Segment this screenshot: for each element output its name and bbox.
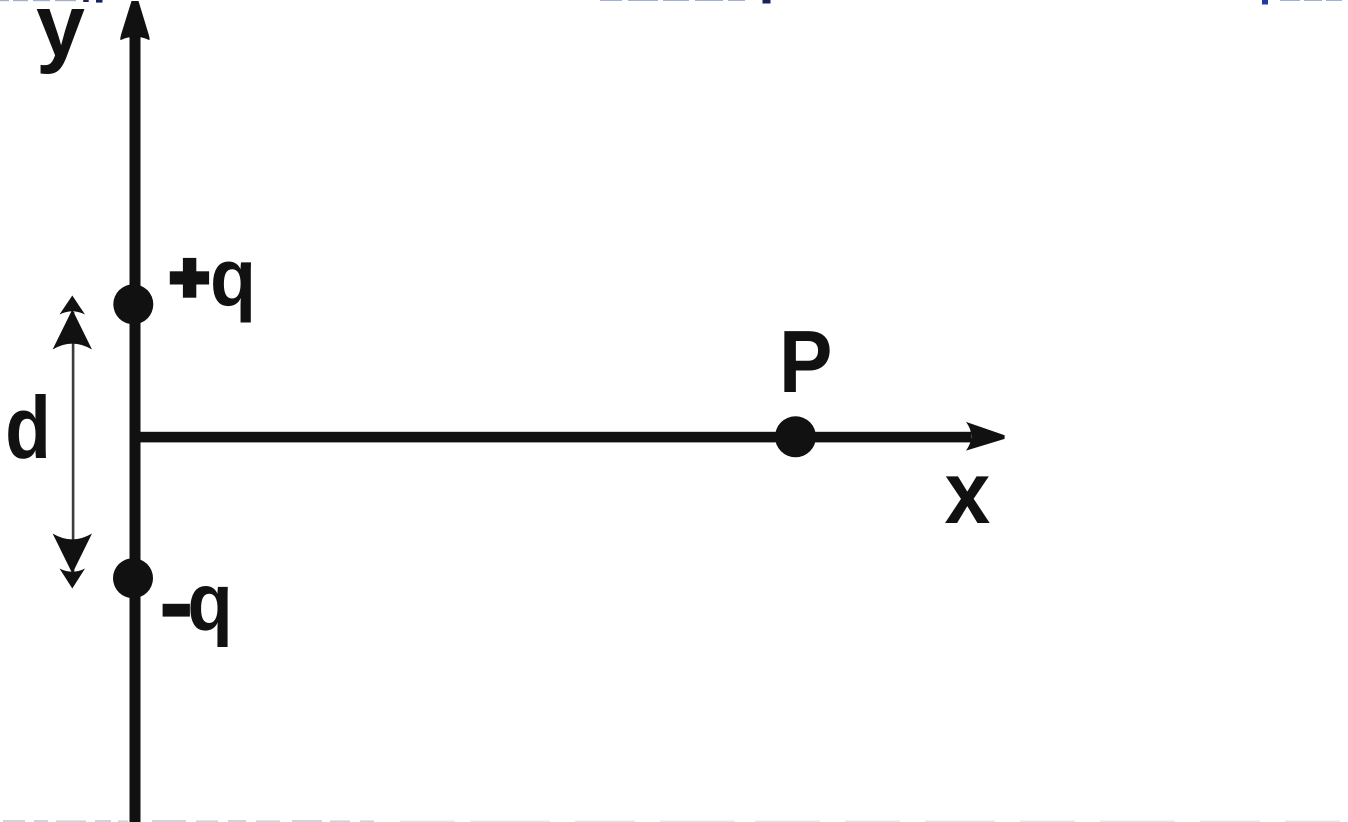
svg-text:d: d (5, 379, 51, 477)
node P label (779, 313, 832, 411)
d arrowhead bottom (double) (53, 534, 92, 574)
svg-text:q: q (187, 556, 232, 648)
node d label (5, 379, 51, 477)
svg-text:P: P (779, 313, 832, 411)
node +q charge dot (113, 284, 153, 324)
wire: y-axis shaft (130, 30, 141, 822)
node -q charge dot (113, 558, 153, 598)
node P point dot (775, 416, 816, 457)
bottom cropped text fragments (3, 820, 374, 822)
node +q label: plus sign (170, 271, 209, 284)
node -q label: q (187, 556, 232, 648)
y-axis arrowhead (120, 1, 149, 40)
node x label (945, 445, 991, 543)
svg-text:x: x (945, 445, 991, 543)
svg-text:y: y (36, 0, 85, 75)
node y label (36, 0, 85, 75)
node +q label: q (210, 232, 256, 324)
d arrowhead top (double) (60, 296, 86, 315)
top cropped text fragments (83, 0, 770, 4)
wire: x-axis shaft (135, 432, 971, 443)
wire: d dimension line (72, 312, 75, 572)
svg-text:q: q (210, 232, 256, 324)
node -q label: minus sign (163, 604, 190, 617)
x-axis arrowhead (966, 422, 1005, 451)
